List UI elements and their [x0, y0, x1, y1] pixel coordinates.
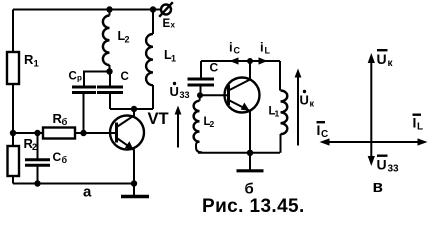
inductor L1 (a) — [146, 10, 176, 110]
ground (a) — [121, 184, 149, 197]
wire base (b) — [200, 94, 228, 96]
svg-text:C: C — [69, 71, 77, 83]
label Uk with arrow (b) — [295, 69, 315, 146]
svg-text:C: C — [210, 61, 219, 75]
wire Cp bottom lead — [83, 94, 85, 134]
current arrow Ic — [229, 40, 241, 65]
wire left vertical (a) — [12, 10, 14, 53]
svg-text:1: 1 — [34, 59, 40, 70]
svg-text:33: 33 — [388, 164, 400, 175]
svg-text:2: 2 — [210, 119, 215, 129]
svg-text:Рис. 13.45.: Рис. 13.45. — [202, 196, 305, 217]
svg-text:U: U — [377, 157, 387, 173]
svg-text:C: C — [321, 129, 328, 140]
svg-text:2: 2 — [125, 35, 130, 45]
svg-text:L: L — [417, 122, 423, 133]
arrow down U33 axis — [368, 156, 375, 166]
svg-text:а: а — [83, 184, 92, 201]
svg-text:C: C — [121, 71, 129, 83]
arrow right IL axis — [418, 138, 428, 145]
wire bottom rail (b) — [198, 152, 280, 154]
axis horizontal (v) — [324, 141, 423, 143]
svg-text:L: L — [265, 46, 271, 56]
node dot left base — [10, 130, 16, 136]
wire R2 leads — [12, 133, 14, 184]
wire base rail (a) — [13, 132, 116, 134]
wire bottom rail (a) — [13, 183, 134, 185]
svg-text:VT: VT — [148, 110, 169, 128]
label U33 (v) — [377, 155, 400, 175]
arrow up Uk axis — [368, 53, 375, 63]
svg-text:б: б — [245, 181, 254, 198]
inductor L2 (b) — [194, 95, 215, 152]
label IL (v) — [413, 114, 424, 133]
resistor R1 — [7, 52, 40, 84]
arrow left Ic axis — [320, 138, 330, 145]
svg-text:i: i — [229, 40, 233, 55]
wire C (a) leads — [109, 72, 111, 110]
ground (b) — [237, 153, 264, 171]
svg-text:U: U — [377, 51, 387, 67]
axis vertical (v) — [370, 58, 372, 161]
inductor L2 (a) — [103, 10, 130, 72]
svg-text:б: б — [62, 117, 68, 128]
capacitor Cb — [25, 150, 68, 165]
svg-text:C: C — [53, 150, 62, 164]
svg-text:R: R — [24, 52, 34, 67]
terminal Ex — [153, 2, 176, 30]
svg-text:к: к — [310, 99, 315, 109]
inductor L1 (b) — [269, 61, 288, 153]
svg-text:1: 1 — [171, 54, 176, 64]
svg-text:1: 1 — [275, 109, 280, 119]
node dot L2 top — [106, 6, 112, 12]
node dot L2-C junction — [106, 68, 112, 74]
svg-text:х: х — [171, 21, 176, 30]
node dot Cb ground — [34, 180, 40, 186]
svg-text:I: I — [413, 115, 417, 131]
capacitor Cp — [69, 71, 97, 93]
node dot emitter ground (a) — [131, 180, 137, 186]
node dot top right — [150, 6, 156, 12]
svg-text:б: б — [62, 155, 68, 165]
svg-text:U: U — [170, 84, 179, 99]
transistor VT — [110, 109, 169, 184]
label Uk (v) — [377, 49, 394, 69]
current arrow IL — [259, 40, 271, 65]
resistor R2 — [8, 136, 38, 176]
svg-text:i: i — [260, 40, 264, 55]
wire collector node (a) — [110, 108, 153, 110]
wire top rail (a) — [13, 9, 153, 11]
transistor (b) — [225, 61, 260, 153]
node dot base (b) — [197, 92, 203, 98]
node dot top (b) — [247, 58, 253, 64]
node dot base-Cp — [80, 130, 86, 136]
wire top rail (b) — [201, 60, 280, 62]
label Ic (v) — [317, 121, 329, 140]
node dot collector (a) — [131, 106, 137, 112]
svg-text:C: C — [234, 46, 241, 56]
wire Cb top lead — [37, 133, 39, 159]
svg-text:Е: Е — [163, 18, 171, 30]
svg-text:I: I — [317, 122, 321, 138]
node dot emitter (b) — [247, 150, 253, 156]
svg-text:р: р — [77, 74, 82, 83]
capacitor C (a) — [97, 71, 129, 93]
svg-text:в: в — [373, 177, 383, 196]
svg-text:U: U — [300, 93, 309, 108]
resistor Rb — [43, 111, 75, 139]
wire Cp top lead — [84, 72, 110, 86]
capacitor C (b) — [188, 61, 219, 96]
svg-text:2: 2 — [32, 142, 37, 152]
wire R1 to base node — [12, 84, 14, 133]
svg-text:33: 33 — [180, 90, 190, 100]
label U33 with arrow — [170, 82, 190, 148]
node dot Cb tap — [34, 130, 40, 136]
wire Cb bottom lead — [37, 167, 39, 184]
